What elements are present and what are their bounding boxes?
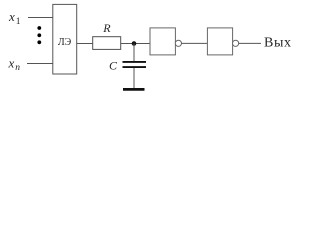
ground bbox=[123, 88, 145, 91]
svg-text:n: n bbox=[15, 63, 20, 73]
svg-text:1: 1 bbox=[16, 17, 21, 27]
wire capacitor to ground bbox=[133, 68, 135, 88]
svg-text:ЛЭ: ЛЭ bbox=[58, 37, 72, 48]
wire gate1 to gate2 bbox=[181, 42, 207, 44]
wire xn to LE bbox=[27, 63, 53, 65]
svg-text:Вых: Вых bbox=[264, 36, 291, 51]
logic element U1 box bbox=[53, 4, 77, 74]
input label xn bbox=[8, 56, 21, 74]
wire LE output bbox=[77, 43, 93, 45]
wire node down to capacitor bbox=[133, 44, 135, 62]
svg-text:x: x bbox=[8, 9, 15, 24]
svg-text:R: R bbox=[102, 21, 111, 35]
ellipsis dots bbox=[37, 26, 41, 44]
wire gate2 to output bbox=[239, 42, 262, 44]
resistor R bbox=[93, 37, 121, 50]
wire x1 to LE bbox=[28, 17, 53, 19]
wire resistor to node bbox=[121, 43, 150, 45]
capacitor C bbox=[123, 62, 147, 67]
svg-text:x: x bbox=[8, 56, 15, 71]
input label x1 bbox=[8, 9, 21, 27]
svg-text:C: C bbox=[109, 59, 118, 73]
inverter gate 2 bbox=[207, 28, 238, 55]
node junction bbox=[132, 41, 137, 46]
inverter gate 1 bbox=[150, 28, 181, 55]
